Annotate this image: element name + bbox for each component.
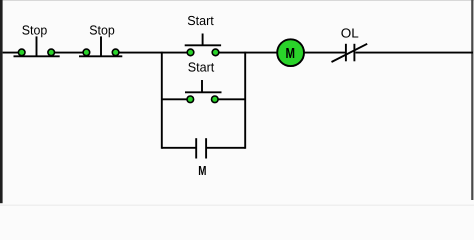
wire: branch rung right segment xyxy=(215,98,245,100)
start pushbutton PB3 (NO): actuator stem xyxy=(202,34,204,46)
wire: coil M to OL contact xyxy=(304,52,345,54)
wire: Stop PB2 to Start PB1 (passes branch node) xyxy=(116,52,191,54)
stop pushbutton PB2: left terminal dot xyxy=(83,49,90,56)
wire: seal-in rung right segment xyxy=(206,147,245,149)
bottom hairline band xyxy=(0,205,474,207)
start pushbutton PB4: right terminal dot xyxy=(212,96,219,103)
wire: OL contact to right rail xyxy=(356,52,474,54)
stop pushbutton PB2 (NC): actuator stem xyxy=(100,36,102,56)
start pushbutton PB4 (NO): actuator stem xyxy=(201,80,203,92)
stop pushbutton PB2: contact bar xyxy=(79,55,122,57)
svg-text:Stop: Stop xyxy=(22,23,48,38)
coil M (motor starter, green circle) xyxy=(277,39,304,66)
wire: seal-in rung left segment xyxy=(162,147,196,149)
left frame border xyxy=(0,0,3,203)
seal-in contact M (NO): left plate xyxy=(195,138,197,158)
svg-text:M: M xyxy=(285,46,295,62)
wire: left rail to Stop PB1 left terminal xyxy=(3,52,22,54)
wire: branch rung left segment xyxy=(162,98,191,100)
overload contact OL (NC): left plate xyxy=(345,44,347,62)
overload contact OL: NC slash xyxy=(332,44,368,62)
right frame border xyxy=(471,0,473,200)
start pushbutton PB4: left terminal dot xyxy=(187,96,194,103)
parallel branch: right vertical wire xyxy=(244,52,246,149)
svg-text:M: M xyxy=(198,163,206,178)
stop pushbutton PB1: contact bar xyxy=(14,55,60,57)
wire: Stop PB1 to Stop PB2 xyxy=(51,52,86,54)
stop pushbutton PB1: right terminal dot xyxy=(48,49,55,56)
parallel branch: left vertical wire xyxy=(161,52,163,149)
stop pushbutton PB1: left terminal dot xyxy=(18,49,25,56)
start pushbutton PB3: right terminal dot xyxy=(212,49,219,56)
start pushbutton PB3: contact bar xyxy=(185,44,221,46)
overload contact OL (NC): right plate xyxy=(353,44,355,62)
start pushbutton PB4: contact bar xyxy=(185,91,222,93)
stop pushbutton PB2: right terminal dot xyxy=(112,49,119,56)
svg-text:OL: OL xyxy=(341,25,359,40)
svg-text:Start: Start xyxy=(187,13,214,28)
seal-in contact M (NO): right plate xyxy=(205,138,207,158)
svg-text:Stop: Stop xyxy=(89,23,115,38)
svg-text:Start: Start xyxy=(188,60,215,75)
stop pushbutton PB1 (NC): actuator stem xyxy=(36,36,38,56)
wire: Start PB1 to coil M xyxy=(216,52,278,54)
top hairline xyxy=(0,0,474,1)
start pushbutton PB3: left terminal dot xyxy=(187,49,194,56)
